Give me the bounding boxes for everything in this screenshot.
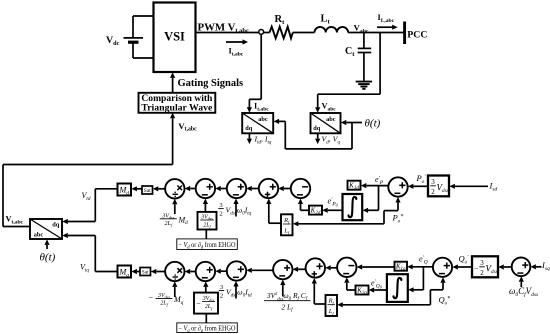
svg-text:abc: abc [34,232,44,239]
summer S14 [259,179,278,198]
wire Qo* riser [430,277,445,305]
label Qo* [439,295,451,307]
wire Sat to Md [131,186,142,191]
svg-text:Sat: Sat [142,269,149,275]
wire S12 to X1 [185,186,196,191]
node tap It,abc [259,30,264,35]
label 3Vdss/2Lf Md [160,213,188,227]
wire multiplier to Sat q [151,269,165,274]
wire S23 to S22 [215,269,227,274]
gain box -3/2Vdss [472,256,498,277]
svg-text:Sat: Sat [144,188,151,194]
wire K2q to S26 [344,277,355,290]
arrow gain to S12 [203,199,208,212]
gain box K2d [309,206,322,217]
multiplier X1 [165,179,184,198]
wire S28 to gain [498,264,511,269]
arrow Itd Itq output [247,133,272,145]
summer S27 Q [433,258,452,277]
wire Vtd [95,189,117,222]
gain box 3/2Vdss [428,176,449,197]
arrow feedforward into S13 [233,199,238,217]
multiplier X2 [165,262,184,281]
label theta(t) [365,118,381,130]
label Vabc input [322,102,337,113]
wire integrator to K2d [322,208,342,213]
block Sat d [142,186,153,194]
gain box K2q [356,286,369,297]
svg-text:2: 2 [480,269,484,277]
wire Vabc tap [315,33,380,113]
wire multiplier to Sat [153,186,165,191]
summer S26 [337,258,356,277]
wire S26 to S25 [325,265,337,270]
wire ePrime to integrator [363,186,379,213]
svg-text:3: 3 [220,284,223,291]
label Vdc [106,35,120,47]
observer box EHGO q [177,323,238,334]
label Ct [345,46,355,58]
wire Rf/Lf to S25 [312,278,326,304]
wire Q circle to K1q [407,264,433,269]
battery Vdc [124,38,144,42]
summer S12 [196,179,215,198]
wire S22 to X2 [185,269,196,274]
arrow w0CfVdss into S28 [519,276,524,287]
svg-text:Gating Signals: Gating Signals [178,78,244,89]
wire K1q to S26 [357,264,395,269]
svg-text:PCC: PCC [407,29,427,40]
svg-text:3: 3 [219,202,222,209]
wire gain to EHGO q [205,314,207,323]
svg-text:2Lf: 2Lf [160,300,168,307]
arrow theta into dq-abc [40,239,56,263]
summer S16 [388,177,407,196]
gain box Rf/Lf q [326,295,338,316]
wire S14 to S13 [246,186,258,191]
wire Isd input [449,184,488,189]
wire S13 to S12 [215,186,227,191]
svg-text:−: − [149,293,154,302]
wire gain to S16 [408,184,428,189]
label It,abc input [254,102,269,113]
svg-text:θ(t): θ(t) [40,252,56,264]
label Vtd [82,191,91,202]
wire S15 to S14 [278,186,290,191]
wire K2d to S15 [298,199,309,211]
arrow Vd Vq output [315,133,340,145]
svg-text:3: 3 [431,178,435,186]
label Vtq [80,263,89,274]
bus PCC [405,22,428,45]
svg-text:θ(t): θ(t) [365,118,381,130]
label Rt [275,14,286,26]
arrow gating signals [170,72,243,92]
wire theta input [341,120,362,125]
label e'P0 [328,197,339,208]
label e'P [375,175,384,186]
svg-text:abc: abc [326,116,336,123]
svg-text:2Lf: 2Lf [205,304,213,311]
svg-text:3: 3 [480,259,484,267]
label Po* [392,213,404,225]
summer S25 [306,258,325,277]
svg-text:dq: dq [245,125,253,132]
label -3Vdss/2Lf Mq [149,293,184,307]
wire PWM output [196,32,270,34]
arrow gain to S22 [203,281,208,292]
arrow divisor into X1 [172,199,177,214]
transform block abc-dq voltage [311,113,341,133]
gain box 3Vdss/2Lf d [198,212,217,230]
summer S15 [291,179,310,198]
summer S13 [227,179,246,198]
svg-text:2Lf: 2Lf [203,222,211,229]
wire Vtq [95,236,117,272]
label e'Q0 [371,279,383,290]
inverter VSI [154,3,196,73]
label Isq [541,260,550,272]
integrator q [387,274,408,302]
svg-text:−: − [474,264,479,273]
svg-text:Triangular Wave: Triangular Wave [141,104,212,114]
label e'Q [419,255,428,266]
transform block abc-dq current [242,113,273,133]
wire S16 to K1d [361,183,389,188]
transform block dq-abc [30,219,62,239]
gain box -3Vdss/2Lf [194,293,218,314]
arrow divisor into X2 [172,281,177,297]
svg-text:−: − [196,299,201,308]
label Isd [489,181,498,193]
svg-text:dq: dq [52,222,60,229]
summer S22 [196,262,215,281]
block Mq [118,266,132,279]
wire Vt,abc feedback [3,165,173,227]
summer S23 [227,261,246,280]
wire Po* to Rf/Lf input [293,221,384,226]
arrow It,abc [226,39,248,57]
wire Po* riser [384,197,401,224]
gain box K1q [395,262,408,273]
wire to PCC [348,32,404,34]
arrow Vt,abc into comparison [170,113,197,165]
svg-text:abc: abc [258,116,268,123]
label PWM Vt,abc [198,22,250,35]
wire It,abc tap [247,34,261,113]
inductor Lt [315,27,349,33]
capacitor Ct [358,33,372,81]
label w0CfVdss [509,286,538,298]
integrator d [343,194,363,220]
wire gain to S27 [452,264,472,269]
arrow feedforward into S23 [233,281,238,299]
label 3/2 Vdss w0 Itd [219,284,252,300]
svg-text:2Lf: 2Lf [165,221,173,228]
summer S24 [273,260,292,279]
wire Sat to Mq [131,269,140,274]
observer box EHGO d [177,239,238,251]
label Qo' [459,254,470,266]
wire Isq input [530,264,541,269]
wire [293,32,315,34]
wire eQ to integrator [408,267,423,293]
dc source Vdc wires [133,16,154,58]
wire Qo* to Rf/Lf input [337,302,430,307]
gain box Rf/Lf d [281,214,293,235]
ground [356,82,372,89]
svg-text:2: 2 [219,210,222,217]
svg-text:dq: dq [313,125,321,132]
block Md [118,184,132,197]
wire theta to current block [274,119,352,149]
wire Rf/Lf to S14 [266,199,281,224]
arrow IL,abc [377,13,398,30]
resistor Rt [270,27,293,39]
wire gain to EHGO d [205,230,207,239]
block Sat q [140,268,151,276]
label 3Vdss2 w0 RfCf / 2Lf [264,291,311,313]
comparison block [139,93,216,114]
label 3/2 Vdss w0 Itq [218,202,251,218]
svg-text:2: 2 [220,292,223,299]
svg-text:2: 2 [431,188,435,196]
arrow feedforward into S24 [280,280,285,297]
arrow Vtq into dq-abc [62,233,95,238]
summer S28 [512,258,531,277]
label Lt [321,14,331,26]
wire integrator to K2q [369,287,387,292]
wire S24 to S23 [246,268,273,273]
svg-text:VSI: VSI [164,30,185,44]
gain box K1d [348,181,361,192]
label Vabc node [354,23,369,35]
label Vt,abc [6,215,24,226]
arrow Vtd into dq-abc [62,219,95,224]
wire S25 to S24 [293,267,306,272]
label Po' [416,173,427,185]
